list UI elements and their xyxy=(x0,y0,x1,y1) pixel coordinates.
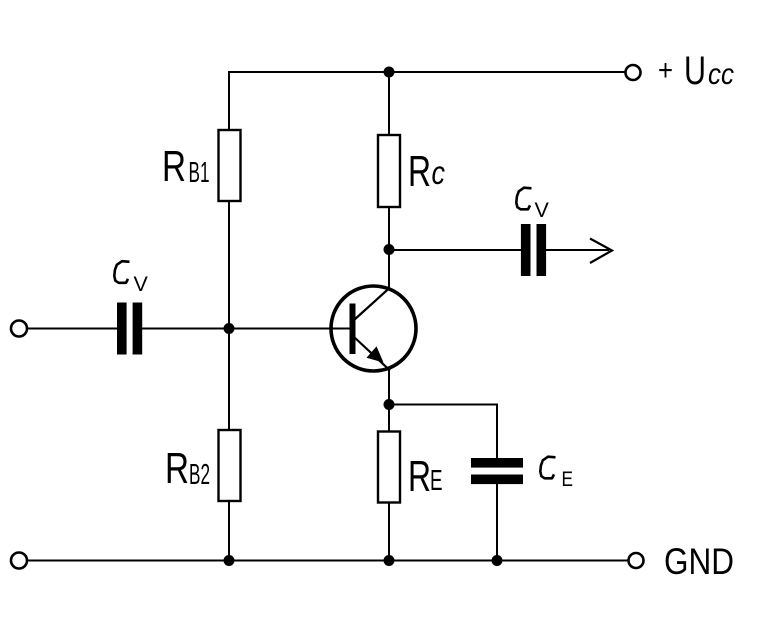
node base / RB2 xyxy=(224,323,235,334)
wire RB2 top xyxy=(228,328,230,431)
wire bottom rail GND xyxy=(27,560,628,562)
svg-text:E: E xyxy=(562,467,574,491)
wire emitter to node xyxy=(388,369,390,405)
wire RB1 bottom to base node xyxy=(228,201,230,329)
svg-text:V: V xyxy=(535,198,550,222)
svg-text:+: + xyxy=(658,54,673,87)
wire emitter node to CE branch xyxy=(389,405,497,460)
capacitor CV output plate 2 xyxy=(537,224,547,276)
svg-text:GND: GND xyxy=(664,541,734,582)
node RE bottom xyxy=(384,555,395,566)
transistor Q1 circle xyxy=(331,286,416,371)
svg-text:R: R xyxy=(162,142,186,191)
wire RC top xyxy=(388,72,390,136)
wire RC bottom to collector node xyxy=(388,207,390,250)
svg-text:R: R xyxy=(408,452,431,501)
transistor collector stroke xyxy=(354,288,390,321)
terminal GND right open circle xyxy=(629,553,644,568)
terminal GND left open circle xyxy=(11,553,27,569)
transistor emitter arrowhead xyxy=(367,346,384,362)
wire RB1 top xyxy=(228,71,230,131)
svg-text:B1: B1 xyxy=(189,157,210,189)
wire RE top xyxy=(388,404,390,432)
svg-text:E: E xyxy=(430,465,443,497)
terminal +Ucc open circle xyxy=(626,65,641,80)
node top rail / collector branch xyxy=(384,67,395,78)
wire top rail +Ucc xyxy=(229,71,625,73)
wire RB2 bottom xyxy=(228,501,230,561)
output arrowhead xyxy=(590,239,612,264)
wire output to capacitor xyxy=(389,249,521,251)
svg-text:U: U xyxy=(684,49,706,93)
label CV input xyxy=(114,261,129,283)
svg-text:cc: cc xyxy=(708,58,734,91)
resistor RC xyxy=(378,135,400,207)
resistor RE xyxy=(378,432,400,503)
terminal input open circle xyxy=(11,321,27,337)
resistor RB2 xyxy=(219,430,241,501)
node collector / output xyxy=(384,244,395,255)
capacitor CV input plate 1 xyxy=(117,303,127,355)
wire input to capacitor xyxy=(27,328,118,330)
capacitor CE plate 2 xyxy=(471,475,523,485)
node CE bottom xyxy=(492,555,503,566)
svg-text:R: R xyxy=(165,444,189,493)
transistor base bar xyxy=(350,304,356,355)
node RB2 bottom xyxy=(224,555,235,566)
transistor emitter stroke xyxy=(354,337,390,371)
resistor RB1 xyxy=(219,130,241,201)
label CE xyxy=(540,457,555,479)
wire CE bottom xyxy=(496,484,498,561)
capacitor CV input plate 2 xyxy=(133,303,143,355)
capacitor CE plate 1 xyxy=(471,458,523,468)
svg-text:c: c xyxy=(432,154,446,191)
svg-text:R: R xyxy=(408,147,431,196)
wire RE bottom xyxy=(388,502,390,561)
wire output arrow line xyxy=(546,249,609,251)
wire capacitor to base xyxy=(142,328,350,330)
capacitor CV output plate 1 xyxy=(521,224,531,276)
wire collector into transistor xyxy=(388,250,390,289)
node emitter xyxy=(384,399,395,410)
label CV output xyxy=(516,188,531,210)
svg-text:B2: B2 xyxy=(189,459,210,491)
svg-text:V: V xyxy=(134,272,149,296)
